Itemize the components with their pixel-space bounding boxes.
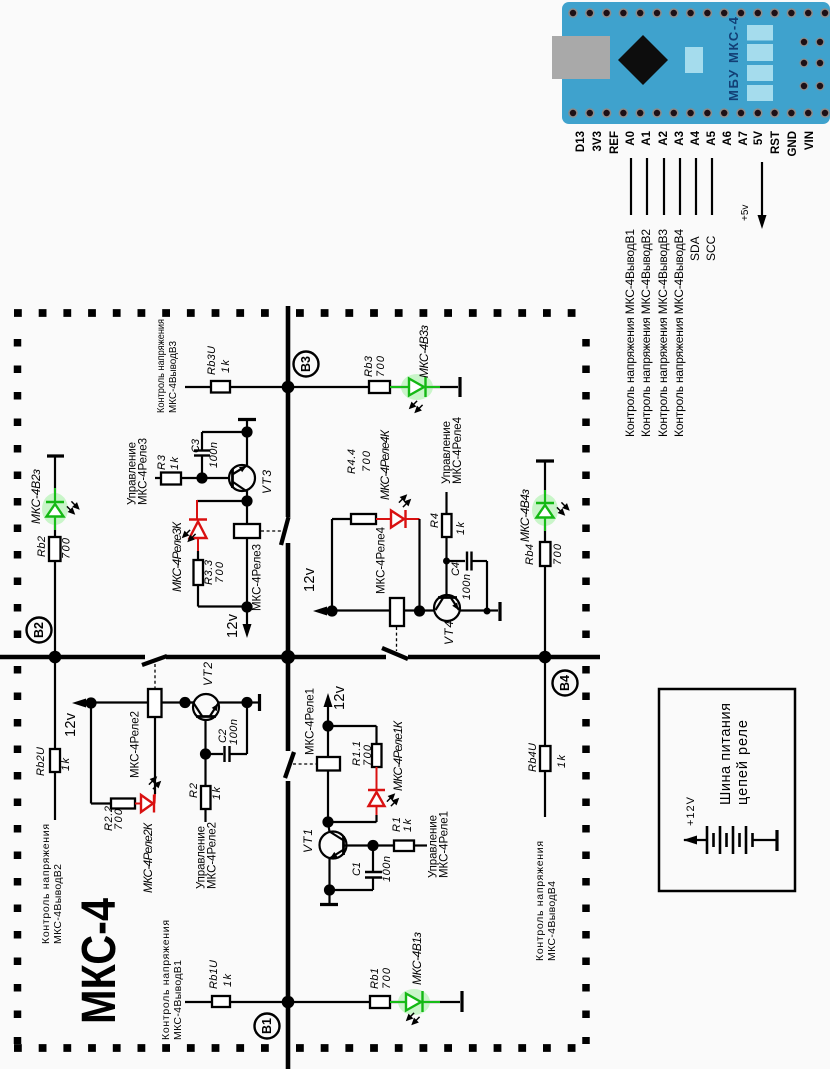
power arrow 12v Реле4 [313, 607, 332, 616]
wire 12v rail to coil Реле4 [332, 609, 390, 611]
svg-text:МКС-4Реле1: МКС-4Реле1 [439, 811, 451, 878]
transistor VT3 [229, 432, 255, 501]
svg-text:1k: 1k [402, 819, 414, 833]
terminal of B4 branch [536, 459, 554, 462]
wire control line Реле4 [445, 492, 447, 514]
svg-text:R4.4: R4.4 [346, 449, 358, 474]
svg-text:R4: R4 [429, 513, 441, 528]
svg-text:3V3: 3V3 [592, 131, 604, 151]
power arrow 12v Реле3 [243, 607, 252, 638]
LED МКС-4Реле4К red [376, 510, 420, 528]
power arrow +12V [683, 836, 697, 845]
box Шина питания цепей реле [659, 689, 795, 891]
svg-text:700: 700 [552, 543, 564, 565]
junction on bus B1 [282, 996, 295, 1009]
light arrows of МКС-4Реле2К [149, 778, 160, 790]
USB connector [552, 36, 610, 79]
wire B4 branch [544, 461, 546, 503]
node base VT2 [200, 748, 211, 759]
light arrows of МКС-4В3з [410, 401, 423, 412]
svg-text:700: 700 [113, 808, 125, 830]
svg-text:+12V: +12V [685, 796, 697, 826]
svg-text:RST: RST [770, 131, 782, 154]
wire coil to collector VT1 [327, 771, 329, 823]
node collector VT1 [322, 816, 333, 827]
svg-text:VT4: VT4 [442, 621, 456, 645]
svg-text:VT1: VT1 [301, 829, 315, 853]
svg-text:МКС-4: МКС-4 [73, 898, 126, 1024]
svg-text:Rb4: Rb4 [524, 544, 536, 565]
node collector VT2 [179, 697, 190, 708]
transistor VT1 [320, 822, 370, 885]
battery 12V [684, 826, 777, 854]
LED МКС-4В4з green [532, 490, 558, 531]
svg-text:Контроль напряжения МКС-4Вывод: Контроль напряжения МКС-4ВыводВ2 [639, 229, 653, 437]
resistor R4.4 [351, 514, 376, 524]
svg-text:100n: 100n [228, 719, 240, 745]
bus B3-B1 vertical wire segments [286, 306, 291, 517]
svg-text:700: 700 [381, 967, 393, 989]
resistor Rb4U [540, 746, 551, 771]
node emitter net VT4 [484, 608, 491, 615]
svg-text:D13: D13 [575, 131, 587, 152]
svg-text:C1: C1 [351, 862, 363, 876]
svg-text:12v: 12v [225, 613, 241, 638]
svg-text:12v: 12v [332, 685, 348, 710]
svg-text:VT3: VT3 [260, 470, 274, 494]
svg-text:МКС-4ВыводВ3: МКС-4ВыводВ3 [167, 341, 179, 413]
svg-text:700: 700 [61, 537, 73, 559]
svg-text:100n: 100n [208, 442, 220, 468]
light arrows of МКС-4Реле4К [399, 496, 410, 508]
svg-text:100n: 100n [381, 856, 393, 882]
svg-text:Контроль напряжения МКС-4Вывод: Контроль напряжения МКС-4ВыводВ4 [672, 229, 686, 437]
svg-text:12v: 12v [63, 712, 79, 737]
svg-text:В4: В4 [558, 675, 572, 691]
capacitor smd [685, 47, 703, 73]
svg-text:A5: A5 [706, 130, 718, 145]
node emitter net VT3 [241, 426, 252, 437]
svg-text:VT2: VT2 [201, 662, 215, 686]
svg-text:Контроль напряжения: Контроль напряжения [534, 841, 546, 961]
svg-text:МКС-4Реле2: МКС-4Реле2 [207, 822, 219, 889]
pin pads [568, 8, 830, 118]
wire B2 branch [54, 456, 56, 502]
capacitor C1 [328, 846, 382, 891]
node 12v Реле3 [241, 601, 252, 612]
svg-text:МКС-4Реле1К: МКС-4Реле1К [391, 720, 405, 791]
switch contact of relay Реле2 [142, 656, 167, 665]
svg-text:МКС-4Реле3: МКС-4Реле3 [138, 438, 150, 505]
relay coil МКС-4Реле2 [148, 689, 162, 717]
terminal of VT1 emitter [328, 890, 330, 903]
svg-text:A7: A7 [738, 131, 750, 146]
svg-text:МКС-4Реле1: МКС-4Реле1 [305, 688, 317, 755]
resistor R2 [201, 786, 211, 809]
svg-text:1k: 1k [222, 974, 234, 988]
node emitter net VT2 [241, 697, 252, 708]
node collector VT4 [414, 605, 425, 616]
junction of B2 branch and bus [49, 651, 62, 664]
svg-text:МКС-4ВыводВ4: МКС-4ВыводВ4 [546, 881, 558, 961]
LED МКС-4Реле1К red [368, 767, 385, 822]
svg-text:В1: В1 [260, 1018, 274, 1034]
wire from pin A0 [630, 158, 632, 215]
svg-text:12v: 12v [302, 567, 318, 592]
wire 12v to coil Реле1 [327, 726, 329, 757]
wire coil to collector VT2 [162, 701, 194, 703]
junction of buses [281, 650, 295, 664]
svg-text:A0: A0 [625, 131, 637, 146]
bus B2-B4 horizontal wire segments [0, 655, 145, 660]
light arrows of МКС-4В2з [67, 501, 79, 513]
wire flyback branch Реле1 [328, 725, 377, 727]
light arrows of МКС-4Реле3К [183, 530, 196, 541]
resistor R4 [442, 514, 452, 537]
wire collector to coil [246, 501, 248, 524]
light arrows of МКС-4Реле1К [387, 795, 398, 807]
svg-text:В3: В3 [299, 356, 313, 372]
resistor Rb3 [369, 381, 390, 393]
svg-text:100n: 100n [461, 574, 473, 600]
LED МКС-4Реле2К red [135, 793, 155, 813]
junction of B4 branch and bus [539, 651, 552, 664]
svg-text:700: 700 [214, 561, 226, 583]
capacitor C2 [206, 703, 248, 762]
terminal of B3 line [458, 377, 461, 397]
LED МКС-4В3з green [390, 374, 440, 400]
svg-text:C3: C3 [190, 438, 202, 453]
svg-text:1k: 1k [169, 457, 181, 471]
svg-text:1k: 1k [556, 755, 568, 769]
resistor Rb3U [211, 381, 230, 393]
switch contact of relay Реле3 [281, 517, 289, 545]
resistor R1.1 [372, 744, 382, 767]
wire flyback return Реле3 [197, 585, 199, 607]
terminal of VT4 emitter [487, 609, 498, 611]
svg-text:A3: A3 [674, 131, 686, 146]
LED МКС-4Реле3К red [189, 520, 207, 561]
node 12v Реле1 [322, 720, 333, 731]
svg-text:МКС-4В1з: МКС-4В1з [410, 932, 424, 985]
wire coil to 12v node [246, 538, 248, 607]
svg-text:700: 700 [362, 744, 374, 766]
wire control line to base of VT3 [155, 477, 230, 479]
svg-text:МКС-4Реле4: МКС-4Реле4 [452, 416, 464, 484]
node base VT1 [367, 840, 378, 851]
wire flyback branch Реле3 [197, 500, 247, 502]
svg-text:1k: 1k [455, 522, 467, 536]
svg-text:Контроль напряжения: Контроль напряжения [155, 319, 167, 413]
terminal of VT2 emitter [247, 701, 258, 703]
svg-text:R2: R2 [188, 783, 200, 798]
svg-text:МБУ МКС-4: МБУ МКС-4 [726, 16, 741, 101]
ICSP header [800, 38, 825, 91]
transistor VT4 [434, 561, 487, 621]
svg-text:Rb3U: Rb3U [206, 346, 218, 375]
resistor Rb1 [370, 996, 390, 1008]
wire from pin A5 [711, 158, 713, 215]
svg-text:Rb2U: Rb2U [35, 747, 47, 776]
dashed actuation link Реле4 [396, 627, 398, 651]
wire from pin A3 [679, 158, 681, 215]
svg-text:A4: A4 [690, 130, 702, 145]
resistor Rb4 [540, 542, 551, 566]
wire B2 sense line [54, 657, 56, 820]
svg-text:REF: REF [609, 131, 621, 154]
wire LED to coil Реле2 [154, 717, 156, 794]
switch contact of relay Реле1 [285, 752, 294, 778]
node B1 [255, 1014, 280, 1039]
resistor R2.2 [111, 799, 135, 809]
resistor Rb1U [212, 996, 230, 1007]
svg-text:МКС-4В3з: МКС-4В3з [417, 325, 431, 378]
node base VT4 [443, 558, 450, 565]
svg-text:Контроль напряжения: Контроль напряжения [160, 920, 172, 1040]
power arrow +5v from pin 5V [758, 162, 767, 229]
resistor Rb2 [49, 537, 61, 561]
capacitor C3 [194, 432, 247, 478]
svg-text:C4: C4 [450, 562, 462, 576]
dashed actuation link Реле3 [261, 530, 284, 532]
wire control line Реле2 [204, 809, 206, 822]
relay coil МКС-4Реле1 [317, 757, 340, 771]
svg-text:МКС-4Реле3К: МКС-4Реле3К [170, 521, 184, 592]
node base VT3 [196, 472, 207, 483]
svg-text:МКС-4Реле4: МКС-4Реле4 [376, 526, 388, 594]
svg-text:В2: В2 [32, 622, 46, 638]
svg-text:Rb2: Rb2 [36, 536, 48, 557]
svg-text:Rb1U: Rb1U [208, 960, 220, 989]
transistor VT2 [185, 694, 247, 754]
node 12v Реле4 [326, 605, 337, 616]
dashed enclosure border МКС-4 [14, 313, 592, 1048]
resistor Rb2U [50, 749, 60, 772]
wire flyback branch Реле2 [90, 703, 92, 804]
resistor R3 [161, 473, 181, 485]
svg-text:МКС-4Реле2К: МКС-4Реле2К [141, 822, 155, 893]
wire base to R2 [204, 754, 206, 786]
svg-text:SCC: SCC [704, 235, 718, 261]
svg-text:A2: A2 [658, 131, 670, 146]
wire base to R4 [445, 537, 447, 561]
resistor R1 [373, 844, 394, 846]
node B3 [294, 352, 319, 377]
wire from pin A1 [646, 158, 648, 215]
svg-text:Контроль напряжения МКС-4Вывод: Контроль напряжения МКС-4ВыводВ1 [623, 229, 637, 437]
svg-text:МКС-4Реле4К: МКС-4Реле4К [378, 429, 392, 500]
svg-text:R3: R3 [156, 454, 168, 470]
wire control line Реле1 [414, 844, 427, 846]
relay coil МКС-4Реле3 [234, 524, 260, 538]
led bank [747, 25, 773, 41]
wire B4 sense line [544, 657, 546, 817]
svg-text:МКС-4Реле3: МКС-4Реле3 [252, 544, 264, 611]
svg-text:A1: A1 [641, 130, 653, 145]
node B2 [27, 618, 52, 643]
svg-text:700: 700 [375, 355, 387, 377]
light arrows of МКС-4В4з [557, 502, 569, 514]
svg-text:цепей реле: цепей реле [735, 720, 751, 805]
dashed actuation link Реле1 [293, 763, 317, 765]
svg-text:SDA: SDA [688, 236, 702, 261]
wire 12v rail to coil Реле2 [91, 701, 148, 703]
svg-text:Шина питания: Шина питания [718, 703, 734, 805]
svg-text:МКС-4ВыводВ2: МКС-4ВыводВ2 [52, 864, 64, 944]
svg-text:1k: 1k [211, 787, 223, 801]
wire flyback branch Реле4 [331, 519, 333, 611]
resistor R3.3 [194, 560, 204, 585]
LED МКС-4В2з green [42, 488, 68, 530]
board МБУ МКС-4 [552, 2, 830, 124]
wire from pin A2 [663, 158, 665, 215]
svg-text:Rb1: Rb1 [369, 968, 381, 989]
node 12v Реле2 [85, 697, 96, 708]
svg-text:A6: A6 [722, 131, 734, 146]
svg-text:1k: 1k [60, 758, 72, 772]
svg-text:МКС-4В2з: МКС-4В2з [29, 469, 43, 524]
svg-text:+5v: +5v [740, 205, 751, 221]
wire coil to collector VT4 [404, 609, 435, 611]
svg-text:МКС-4В4з: МКС-4В4з [518, 489, 532, 542]
node emitter net VT1 [324, 884, 335, 895]
capacitor C4 [447, 552, 488, 612]
svg-text:Rb3: Rb3 [363, 355, 375, 377]
MCU chip [618, 35, 668, 85]
LED МКС-4В1з green [390, 989, 440, 1015]
svg-text:Контроль напряжения: Контроль напряжения [40, 824, 52, 944]
svg-text:GND: GND [787, 131, 799, 157]
node collector VT3 [241, 495, 252, 506]
relay coil МКС-4Реле4 [390, 598, 404, 626]
wire flyback return Реле1 [328, 821, 377, 823]
switch contact of relay Реле4 [382, 648, 408, 659]
power arrow 12v Реле2 [72, 699, 91, 708]
svg-text:Rb4U: Rb4U [527, 743, 539, 772]
light arrows of МКС-4В1з [407, 1013, 420, 1024]
svg-text:700: 700 [361, 450, 373, 472]
wire from pin A4 [695, 158, 697, 215]
node B4 [553, 671, 578, 696]
power arrow 12v Реле1 [324, 693, 333, 726]
wire B1 sense line [185, 1001, 288, 1003]
terminal of B1 line [460, 991, 463, 1012]
svg-text:МКС-4Реле2: МКС-4Реле2 [130, 711, 142, 778]
junction on bus B3 [282, 381, 295, 394]
svg-text:5V: 5V [753, 131, 765, 145]
terminal of B2 branch [47, 454, 64, 457]
svg-text:1k: 1k [220, 360, 232, 374]
terminal of VT3 emitter [246, 420, 248, 432]
wire B3 sense line [185, 386, 288, 388]
wire flyback return Реле4 [418, 519, 420, 611]
svg-text:МКС-4ВыводВ1: МКС-4ВыводВ1 [172, 960, 184, 1040]
svg-text:Контроль напряжения МКС-4Вывод: Контроль напряжения МКС-4ВыводВ3 [656, 229, 670, 437]
dashed actuation link Реле2 [154, 664, 156, 688]
svg-text:VIN: VIN [804, 131, 816, 150]
